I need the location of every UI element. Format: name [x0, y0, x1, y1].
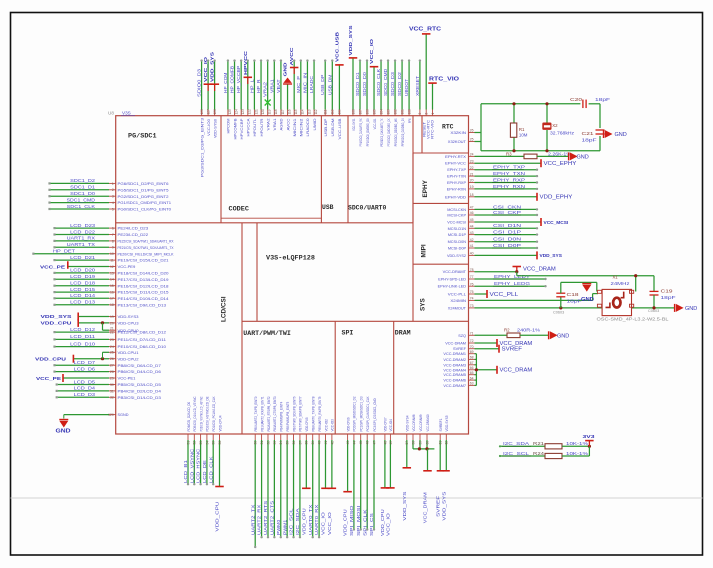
wire USB_DM (top pin 110): [331, 110, 333, 116]
svg-text:78: 78: [470, 268, 474, 272]
svg-text:MIC_IN: MIC_IN: [302, 73, 307, 93]
svg-text:10K-1%: 10K-1%: [566, 441, 588, 446]
svg-text:R2: R2: [504, 328, 510, 333]
svg-text:47: 47: [372, 441, 376, 445]
wire EPHY_RXP (right pin 20): [469, 182, 475, 184]
svg-text:LCD_B1: LCD_B1: [183, 460, 188, 483]
wire VCC-DRAM stubs (bottom pins 58-60): [412, 434, 414, 440]
wire RTC osc left rail: [480, 104, 482, 151]
svg-text:LCD_D23: LCD_D23: [70, 223, 95, 228]
svg-text:CSI_D1N: CSI_D1N: [493, 223, 521, 228]
svg-text:VDD_CPU: VDD_CPU: [343, 509, 348, 536]
wire X24MOUT (right pin 73): [469, 307, 475, 309]
power flag VCC_PE (left pin 29): [109, 377, 116, 379]
wire LCD_D3 (left pin 32): [109, 396, 116, 398]
power flag VDD_SYS (left pin 19): [109, 316, 116, 318]
ground GND at R3: [568, 152, 570, 160]
svg-text:31: 31: [110, 389, 114, 393]
svg-text:LCD_D4: LCD_D4: [74, 386, 96, 391]
no-connect mark on VRA2 (top pin 119): [267, 110, 269, 116]
svg-text:SVREF: SVREF: [502, 347, 523, 353]
svg-text:6: 6: [112, 227, 114, 231]
svg-text:53: 53: [199, 441, 203, 445]
svg-text:V3S: V3S: [122, 111, 131, 116]
wire VCC-DRAM bottom bus: [413, 448, 434, 450]
svg-text:MICIN2: MICIN2: [299, 117, 304, 136]
svg-text:GND: GND: [577, 154, 590, 160]
chip section dividers: [220, 116, 222, 223]
svg-text:VRA1: VRA1: [272, 118, 277, 131]
svg-text:HP_COM: HP_COM: [223, 72, 228, 93]
wire CSI_CKP (right pin 46): [469, 214, 475, 216]
power flag VCC_MCSI (right pin 45): [469, 221, 475, 223]
svg-text:VDD-SYS3: VDD-SYS3: [118, 314, 140, 319]
wire SDC0_CLK (top pin 104): [380, 110, 382, 116]
svg-text:VCC_IO: VCC_IO: [386, 513, 391, 536]
svg-text:VDD-SYS4: VDD-SYS4: [406, 416, 410, 432]
svg-text:VCC-IO2: VCC-IO2: [324, 419, 328, 431]
svg-text:PD2/CSI_HSYNC/LCD_DE: PD2/CSI_HSYNC/LCD_DE: [206, 396, 210, 431]
junction dots X2: [545, 102, 548, 105]
svg-text:LCD_D22: LCD_D22: [70, 229, 95, 234]
wire SGND (left pin 120): [109, 414, 116, 416]
svg-text:PG3/SDC1_D3/PG_EINT3: PG3/SDC1_D3/PG_EINT3: [199, 117, 204, 177]
svg-text:3V3: 3V3: [583, 434, 595, 440]
svg-text:2.26K-1%: 2.26K-1%: [548, 151, 571, 156]
svg-text:UMID: UMID: [312, 118, 317, 130]
svg-text:41: 41: [324, 441, 328, 445]
svg-text:46: 46: [366, 441, 370, 445]
svg-text:127: 127: [206, 109, 210, 115]
svg-text:VDD-SYS5: VDD-SYS5: [445, 416, 449, 432]
wire LCD_D6 (left pin 28): [109, 371, 116, 373]
wire LCD_CLK (bottom pin 55): [212, 434, 214, 440]
svg-text:MICIN1: MICIN1: [292, 117, 297, 136]
svg-text:66: 66: [470, 366, 474, 370]
svg-text:12: 12: [110, 265, 114, 269]
svg-text:54: 54: [205, 441, 209, 445]
svg-text:GND: GND: [56, 429, 71, 435]
svg-text:36: 36: [292, 441, 296, 445]
svg-text:UART2_RX: UART2_RX: [257, 505, 262, 535]
wire PWM1 (bottom pin 35): [286, 434, 288, 440]
power flag VDD_EPHY (right pin 18): [469, 196, 475, 198]
wire LCD_B1 (bottom pin 51): [187, 434, 189, 440]
svg-text:VCC-DRAM4: VCC-DRAM4: [443, 368, 466, 372]
svg-text:HP_DET: HP_DET: [53, 249, 75, 254]
svg-text:X32KIN: X32KIN: [450, 130, 466, 135]
svg-text:UART1_TX: UART1_TX: [67, 242, 95, 247]
wire SDC0_D1 (top pin 107): [359, 110, 361, 116]
svg-text:SDC1_D2: SDC1_D2: [70, 178, 95, 183]
svg-text:PWM0: PWM0: [276, 519, 281, 535]
svg-text:60: 60: [425, 441, 429, 445]
svg-text:PC1/SPI_MOSI/SDC1_D3: PC1/SPI_MOSI/SDC1_D3: [360, 397, 364, 432]
svg-text:VRA2: VRA2: [263, 81, 268, 97]
power flag VCC_DRAM (right pin 78): [469, 271, 475, 273]
svg-text:2: 2: [112, 188, 114, 192]
svg-text:SZQ: SZQ: [458, 333, 466, 338]
svg-text:PF6: PF6: [408, 119, 412, 124]
wire EPHY_TXN (right pin 21): [469, 175, 475, 177]
svg-text:25: 25: [470, 138, 474, 142]
svg-text:EPHY_RXP: EPHY_RXP: [493, 177, 525, 182]
svg-text:SDC0_D3: SDC0_D3: [390, 72, 395, 96]
wire SDC0_D2 (top pin 101): [401, 110, 403, 116]
svg-text:62: 62: [445, 441, 449, 445]
svg-text:PE11/CSI_D7/LCD_D11: PE11/CSI_D7/LCD_D11: [118, 337, 167, 342]
svg-text:MCSI-D0P: MCSI-D0P: [448, 247, 467, 251]
svg-text:43: 43: [346, 441, 350, 445]
svg-text:EPHY_LEDY: EPHY_LEDY: [494, 274, 530, 279]
svg-text:107: 107: [358, 109, 362, 115]
svg-text:42: 42: [330, 441, 334, 445]
svg-text:SPI_MISO: SPI_MISO: [349, 505, 354, 536]
power flag HPVCC (top pin 122): [247, 110, 249, 116]
svg-text:23: 23: [110, 338, 114, 342]
svg-text:VCC_EPHY: VCC_EPHY: [544, 161, 578, 167]
svg-text:112: 112: [314, 109, 318, 114]
svg-text:USB_DM: USB_DM: [327, 74, 332, 95]
svg-text:HP_L: HP_L: [249, 79, 254, 93]
svg-text:LCD_D21: LCD_D21: [70, 255, 95, 260]
wire R21 to 3V3: [562, 445, 589, 447]
svg-text:PF4/SDC0_D1/UART0_RX: PF4/SDC0_D1/UART0_RX: [359, 118, 363, 146]
wire SDC0_D3 (top pin 102): [394, 110, 396, 116]
svg-text:VCC_PE: VCC_PE: [36, 376, 61, 381]
svg-text:VDD-CPU3: VDD-CPU3: [118, 321, 140, 326]
svg-text:4: 4: [112, 201, 114, 205]
svg-text:AGND: AGND: [279, 118, 284, 130]
svg-text:C18: C18: [567, 292, 580, 297]
capacitor C18 18pF: [559, 306, 562, 309]
svg-text:41: 41: [470, 244, 474, 248]
svg-text:43: 43: [470, 231, 474, 235]
svg-text:58: 58: [411, 441, 415, 445]
svg-text:PF1/SDC0_D0/DBG_D0: PF1/SDC0_D0/DBG_D0: [366, 118, 370, 146]
svg-text:PE15/CSI_D11/LCD_D15: PE15/CSI_D11/LCD_D15: [118, 290, 170, 295]
svg-text:1: 1: [112, 182, 114, 186]
svg-text:11: 11: [110, 259, 114, 263]
wire EPHY_LEDG (right pin 76): [469, 285, 475, 287]
power flag VCC_RTC (top pin 2): [425, 110, 427, 116]
svg-text:63: 63: [470, 382, 474, 386]
svg-text:MCSI-D1P: MCSI-D1P: [448, 233, 467, 237]
wire HP_R (top pin 120): [260, 110, 262, 116]
wire SDC1_CMD (left pin 4): [109, 202, 116, 204]
svg-text:PG2/SDC1_D0/PG_EINT2: PG2/SDC1_D0/PG_EINT2: [118, 194, 170, 199]
wire LCD_D5 (left pin 30): [109, 384, 116, 386]
svg-text:26: 26: [470, 129, 474, 133]
svg-text:VDD-CPU7: VDD-CPU7: [384, 418, 388, 432]
svg-text:LCD_D19: LCD_D19: [70, 274, 95, 279]
svg-text:VDD-CPU4: VDD-CPU4: [218, 416, 222, 432]
svg-text:PE14/CSI_D10/LCD_D14: PE14/CSI_D10/LCD_D14: [118, 296, 170, 301]
wire VCC_IO (bottom pin 42): [331, 434, 333, 440]
svg-text:PD1/CSI_PCLK/LCD_CLK: PD1/CSI_PCLK/LCD_CLK: [212, 396, 216, 431]
wire RTC osc bottom rail: [481, 150, 600, 152]
svg-text:PB7/TWI0_SDA/PB_EINT7: PB7/TWI0_SDA/PB_EINT7: [299, 397, 303, 432]
wire LCD_D19 (left pin 14): [109, 278, 116, 280]
svg-text:LCD_HSYNC: LCD_HSYNC: [196, 448, 201, 483]
svg-text:24MHz: 24MHz: [611, 281, 631, 286]
svg-text:PD5/CSI_D1/LCD_VSYNC: PD5/CSI_D1/LCD_VSYNC: [193, 396, 197, 431]
svg-text:PE24/LCD_D23: PE24/LCD_D23: [118, 226, 149, 231]
svg-text:SDC0_CLK: SDC0_CLK: [376, 69, 381, 96]
svg-text:EPHY-VDD: EPHY-VDD: [445, 194, 466, 199]
svg-text:30: 30: [110, 383, 114, 387]
wire EPHY_LEDY (right pin 77): [469, 278, 475, 280]
svg-text:SVREF: SVREF: [453, 346, 467, 351]
svg-text:HP_COMFB: HP_COMFB: [230, 66, 235, 93]
svg-text:PE16/CSI_D12/LCD_D18: PE16/CSI_D12/LCD_D18: [118, 283, 170, 288]
wire SDC0_D0 (top pin 106): [366, 110, 368, 116]
junction dots R1: [512, 102, 515, 105]
svg-text:VCC-DRAMT: VCC-DRAMT: [443, 269, 467, 274]
svg-text:HPVCCA: HPVCCA: [246, 118, 251, 136]
svg-text:HPOUTL: HPOUTL: [252, 118, 257, 137]
svg-text:HP_R: HP_R: [256, 79, 261, 93]
svg-text:1: 1: [431, 113, 435, 115]
svg-text:PE17/CSI_D13/LCD_D19: PE17/CSI_D13/LCD_D19: [118, 277, 170, 282]
wire VCC_IO (bottom pin 41): [324, 434, 326, 440]
svg-text:PE12/CSI_D8/LCD_D12: PE12/CSI_D8/LCD_D12: [118, 330, 167, 335]
svg-text:75: 75: [470, 290, 474, 294]
svg-text:VDD_SYS: VDD_SYS: [210, 51, 216, 82]
svg-text:10: 10: [110, 252, 114, 256]
svg-text:35: 35: [286, 441, 290, 445]
svg-text:LCD_CLK: LCD_CLK: [208, 456, 213, 483]
svg-text:VDD-SYS1: VDD-SYS1: [352, 118, 356, 130]
power flag VDD_SYS (bottom pin 57): [406, 434, 408, 440]
svg-text:USB-DM: USB-DM: [330, 119, 335, 137]
wire LCD_D7 (left pin 27): [109, 364, 116, 366]
svg-text:102: 102: [393, 109, 397, 115]
svg-text:UART/PWM/TWI: UART/PWM/TWI: [243, 330, 291, 337]
svg-text:R1: R1: [519, 127, 525, 132]
wire CSI_CKN (right pin 47): [469, 208, 475, 210]
wire SDC1_D2 (left pin 1): [109, 182, 116, 184]
svg-text:18pF: 18pF: [582, 138, 597, 143]
svg-text:48: 48: [383, 441, 387, 445]
wire SPI_CLK (bottom pin 46): [366, 434, 368, 440]
svg-text:23: 23: [470, 159, 474, 163]
svg-text:10M: 10M: [519, 132, 528, 137]
svg-text:VDD_CPU: VDD_CPU: [41, 321, 73, 327]
wire LCD_HSYNC (bottom pin 53): [200, 434, 202, 440]
wire VCC-DRAM2 stub (right pin 68): [469, 358, 475, 360]
svg-text:VCC-DRAM3: VCC-DRAM3: [443, 363, 466, 367]
wire LCD_D23 (left pin 6): [109, 227, 116, 229]
svg-text:PF3/SDC0_CMD/DBG_CK: PF3/SDC0_CMD/DBG_CK: [387, 118, 391, 146]
svg-text:113: 113: [307, 109, 311, 114]
wire I2C_SDA (bottom pin 37): [299, 434, 301, 440]
wire VDD_CPU (bottom pin 43): [347, 434, 349, 440]
op-chip U8 V3S-eLQFP128 outline: [116, 116, 469, 434]
svg-text:GND: GND: [557, 333, 570, 339]
svg-text:SDC0_CMD: SDC0_CMD: [383, 68, 388, 96]
svg-text:18pF: 18pF: [595, 97, 610, 102]
wire UART2_RX (bottom pin 31): [261, 434, 263, 440]
svg-text:PB1/UART2_RX/PB_EINT1: PB1/UART2_RX/PB_EINT1: [260, 397, 264, 432]
svg-text:PG/SDC1: PG/SDC1: [128, 133, 157, 141]
wire VDD_CPU (bottom pin 38): [305, 434, 307, 440]
svg-text:SDC1_D1: SDC1_D1: [70, 185, 95, 190]
svg-text:SDC1_CMD: SDC1_CMD: [67, 197, 96, 202]
svg-text:27: 27: [110, 364, 114, 368]
wire UBOOT (top pin 100): [408, 110, 410, 116]
svg-text:38: 38: [305, 441, 309, 445]
svg-text:106: 106: [365, 109, 369, 115]
svg-text:OSC-SMD_4P-L3.2-W2.5-BL: OSC-SMD_4P-L3.2-W2.5-BL: [597, 317, 670, 322]
svg-text:31: 31: [260, 441, 264, 445]
svg-text:SGND: SGND: [118, 412, 129, 417]
svg-text:PB5/CSI_D3/LCD_D5: PB5/CSI_D3/LCD_D5: [118, 382, 162, 387]
svg-text:18: 18: [470, 193, 474, 197]
svg-text:LCD_D7: LCD_D7: [74, 360, 96, 365]
svg-text:EPHY: EPHY: [422, 179, 429, 197]
svg-text:SDC0/UART0: SDC0/UART0: [348, 205, 387, 212]
svg-text:10K-1%: 10K-1%: [566, 451, 588, 456]
svg-text:VDD_EPHY: VDD_EPHY: [540, 195, 574, 201]
svg-text:VDD-SYS0: VDD-SYS0: [212, 118, 217, 138]
svg-text:VRA1: VRA1: [269, 79, 274, 93]
svg-text:3: 3: [418, 113, 422, 115]
svg-text:26: 26: [110, 357, 114, 361]
svg-text:VCC-MCSI: VCC-MCSI: [447, 221, 466, 225]
svg-text:101: 101: [400, 109, 404, 115]
power flag VDD_SYS (top pin 108): [352, 110, 354, 116]
svg-text:46: 46: [470, 211, 474, 215]
wire USB_DP (top pin 111): [324, 110, 326, 116]
resistor R1 10M: [513, 104, 515, 124]
svg-text:C20: C20: [570, 97, 583, 102]
power flag VCC_DRAM (right pin 72): [469, 342, 475, 344]
svg-text:3: 3: [112, 195, 114, 199]
svg-text:VDD-CPU6: VDD-CPU6: [346, 418, 350, 432]
svg-text:GND: GND: [615, 132, 628, 138]
svg-text:VCC_IO: VCC_IO: [327, 512, 332, 535]
svg-text:X24MIN: X24MIN: [450, 298, 466, 303]
ground GND at R2: [548, 331, 550, 339]
svg-text:VDD_CPU: VDD_CPU: [301, 508, 306, 535]
wire LCD_D22 (left pin 7): [109, 234, 116, 236]
svg-text:XRESET: XRESET: [415, 76, 420, 96]
svg-text:PG0/SDC1_CLK/PG_EINT0: PG0/SDC1_CLK/PG_EINT0: [118, 207, 172, 212]
svg-text:PB3/CSI_D1/LCD_D3: PB3/CSI_D1/LCD_D3: [118, 395, 162, 400]
svg-text:EPHY-RXN: EPHY-RXN: [447, 187, 467, 191]
junction at VCC_DRAM / osc rail: [515, 270, 518, 273]
svg-text:VCC_PLL: VCC_PLL: [490, 292, 519, 298]
svg-text:55: 55: [212, 441, 216, 445]
svg-text:R3: R3: [506, 151, 512, 156]
svg-text:MIPI: MIPI: [421, 244, 428, 257]
svg-text:PE20/CSI_FIELD/CSI_MIPI_MCLK: PE20/CSI_FIELD/CSI_MIPI_MCLK: [118, 251, 174, 256]
svg-text:LCD_VSYNC: LCD_VSYNC: [189, 448, 194, 483]
svg-text:19: 19: [470, 185, 474, 189]
power flag VDD_CPU (left pin 20): [109, 322, 116, 324]
svg-text:29: 29: [110, 376, 114, 380]
svg-text:VDD_SYS: VDD_SYS: [441, 492, 446, 521]
wire VCC-DRAM6 stub (right pin 64): [469, 379, 475, 381]
svg-text:108: 108: [351, 109, 355, 115]
svg-text:C19: C19: [661, 289, 674, 294]
svg-text:SDC1_CLK: SDC1_CLK: [67, 204, 95, 209]
svg-text:SDC0_D1: SDC0_D1: [355, 72, 360, 96]
svg-text:VDD-CPU5: VDD-CPU5: [305, 418, 309, 432]
svg-text:EPHY-TXP: EPHY-TXP: [447, 168, 466, 172]
svg-text:PB0/UART2_TX/PB_EINT0: PB0/UART2_TX/PB_EINT0: [254, 397, 258, 432]
svg-text:EPHY_TXP: EPHY_TXP: [493, 165, 525, 170]
svg-text:20: 20: [470, 179, 474, 183]
svg-text:VCC_DRAM: VCC_DRAM: [423, 492, 428, 523]
wire HP_COMFB (top pin 124): [234, 110, 236, 116]
svg-text:VCC_IO: VCC_IO: [203, 57, 209, 82]
wire UART0_TX (bottom pin 39): [312, 434, 314, 440]
svg-text:UART0_TX: UART0_TX: [308, 505, 313, 535]
power flag VDD_CPU (bottom pin 56): [219, 434, 221, 440]
svg-text:120: 120: [108, 413, 114, 417]
svg-text:MCSI-D1N: MCSI-D1N: [448, 227, 467, 231]
capacitor C20 18pF: [582, 100, 584, 109]
svg-text:UART2_CTS: UART2_CTS: [269, 501, 274, 535]
power flag VCC_PE (left pin 12): [109, 266, 116, 268]
svg-text:VCC_USB: VCC_USB: [334, 31, 340, 62]
wire EPHY_TXP (right pin 22): [469, 169, 475, 171]
svg-text:R21: R21: [533, 441, 545, 446]
svg-text:59: 59: [418, 441, 422, 445]
svg-text:LCD_D15: LCD_D15: [70, 287, 95, 292]
ground GND (top pin 116, arrow up): [287, 110, 289, 116]
svg-text:32: 32: [110, 396, 114, 400]
svg-text:PD6/CSI_D2/LCD_D0: PD6/CSI_D2/LCD_D0: [187, 402, 191, 432]
svg-text:SDC0_D2: SDC0_D2: [397, 72, 402, 96]
svg-text:42: 42: [470, 238, 474, 242]
svg-text:18pF: 18pF: [661, 295, 676, 300]
svg-text:RTC-VIO: RTC-VIO: [430, 120, 434, 139]
wire VCC-DRAM1 stub (right pin 69): [469, 353, 475, 355]
svg-text:MCSI-CKN: MCSI-CKN: [447, 208, 466, 212]
svg-text:C21: C21: [582, 131, 595, 136]
wire SZQ (right pin 71) with resistor R2 to GND: [469, 334, 475, 336]
svg-text:PB4/PWM0/PB_EINT4: PB4/PWM0/PB_EINT4: [280, 402, 284, 432]
svg-text:VCC-DRAM6: VCC-DRAM6: [443, 379, 466, 383]
wire VRA1 (top pin 118): [273, 110, 275, 116]
wire VDD_CPU (bottom pin 48): [384, 434, 386, 440]
svg-text:CSI_D0P: CSI_D0P: [493, 243, 521, 248]
wire osc XI branch: [635, 276, 637, 292]
svg-text:AVCC: AVCC: [289, 47, 295, 66]
svg-text:8: 8: [112, 239, 114, 243]
ground GND at X24MOUT: [674, 304, 676, 312]
svg-text:56: 56: [218, 441, 222, 445]
svg-text:HP_VCCBP: HP_VCCBP: [236, 66, 241, 93]
svg-text:5: 5: [112, 207, 114, 211]
wire CSI_D0N (right pin 42): [469, 241, 475, 243]
svg-text:19: 19: [110, 315, 114, 319]
svg-text:LRADC: LRADC: [309, 75, 314, 93]
junction on VDD_CPU wire: [101, 321, 104, 324]
svg-text:CSI_CKP: CSI_CKP: [493, 210, 521, 215]
svg-text:USB-DP: USB-DP: [323, 118, 328, 136]
svg-text:52: 52: [193, 441, 197, 445]
svg-text:CSI_D0N: CSI_D0N: [493, 237, 521, 242]
svg-text:CSI_D1P: CSI_D1P: [493, 230, 521, 235]
svg-text:32: 32: [266, 441, 270, 445]
svg-text:SVREF1: SVREF1: [439, 419, 443, 432]
svg-text:120: 120: [261, 109, 265, 115]
wire HP_VCCBP (top pin 123): [240, 110, 242, 116]
